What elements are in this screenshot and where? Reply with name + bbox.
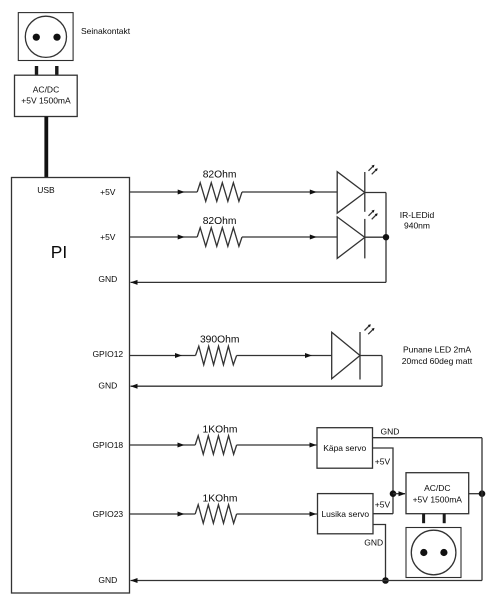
- red LED D3: [332, 332, 382, 380]
- svg-text:PI: PI: [51, 242, 67, 262]
- svg-text:Käpa servo: Käpa servo: [323, 443, 366, 453]
- wire GND return 2: [131, 385, 383, 387]
- svg-text:20mcd 60deg matt: 20mcd 60deg matt: [402, 356, 473, 366]
- wire GND return 3: [131, 580, 483, 582]
- wire GND return 1: [131, 281, 387, 283]
- wire +5V row 2: [130, 236, 198, 238]
- Lusika servo box: [318, 494, 374, 534]
- Käpa servo box: [317, 428, 373, 469]
- wire red LED down: [381, 356, 383, 387]
- wall socket Seinakontakt: [18, 13, 73, 61]
- arrow on +5V row 1 (right): [310, 190, 317, 195]
- svg-text:GPIO23: GPIO23: [92, 509, 123, 519]
- svg-text:82Ohm: 82Ohm: [203, 216, 237, 227]
- svg-text:+5V 1500mA: +5V 1500mA: [413, 494, 463, 504]
- resistor R1 82Ohm: [197, 183, 242, 202]
- plug prongs of AC/DC U1: [37, 66, 57, 76]
- svg-text:AC/DC: AC/DC: [33, 84, 59, 94]
- wire LED cathode bus down: [385, 193, 387, 283]
- wire GPIO23 row: [130, 513, 196, 515]
- Raspberry PI board: [12, 178, 130, 594]
- node +5V junction: [390, 490, 397, 497]
- wall socket 2: [406, 528, 461, 578]
- svg-text:Punane LED 2mA: Punane LED 2mA: [403, 345, 471, 355]
- plug prongs of AC/DC U2: [424, 514, 445, 524]
- AC/DC adapter U2: [406, 473, 469, 514]
- svg-text:1KOhm: 1KOhm: [203, 494, 238, 505]
- arrow into GND 3: [131, 578, 138, 583]
- arrow on +5V row 2 (right): [310, 235, 317, 240]
- resistor R3 390Ohm: [196, 346, 237, 365]
- wire AC/DC 2 GND out: [469, 493, 482, 495]
- svg-text:940nm: 940nm: [404, 220, 430, 230]
- resistor R2 82Ohm: [197, 228, 242, 247]
- USB power cable wire: [44, 117, 48, 179]
- svg-text:GND: GND: [364, 537, 383, 547]
- svg-text:+5V: +5V: [375, 457, 391, 467]
- light arrows D3: [365, 324, 375, 334]
- node GND junction bottom: [382, 577, 389, 584]
- svg-text:GND: GND: [98, 575, 117, 585]
- arrow into GND 1: [131, 280, 138, 285]
- arrow on GPIO12 row (right): [305, 353, 312, 358]
- node LED junction: [383, 234, 389, 240]
- svg-text:+5V: +5V: [100, 232, 116, 242]
- wire GPIO12 row: [130, 355, 196, 357]
- svg-text:+5V: +5V: [375, 500, 391, 510]
- svg-text:Seinakontakt: Seinakontakt: [81, 26, 131, 36]
- resistor R4 1KOhm: [195, 436, 236, 455]
- arrow on +5V row 2 (left): [178, 235, 185, 240]
- IR LED D1: [337, 172, 386, 214]
- resistor R5 1KOhm: [195, 505, 236, 524]
- svg-text:GPIO18: GPIO18: [92, 440, 123, 450]
- svg-text:GND: GND: [98, 381, 117, 391]
- svg-text:+5V: +5V: [100, 187, 116, 197]
- wire right GND bus: [481, 438, 483, 581]
- svg-text:Lusika servo: Lusika servo: [321, 509, 369, 519]
- svg-text:GND: GND: [381, 427, 400, 437]
- node GND junction right: [479, 490, 486, 497]
- wire to AC/DC 2: [393, 493, 405, 495]
- AC/DC adapter U1: [15, 75, 78, 116]
- svg-text:390Ohm: 390Ohm: [200, 335, 240, 346]
- arrow on GPIO12 row (left): [175, 353, 182, 358]
- arrow on GPIO18 row (right): [310, 443, 317, 448]
- IR LED D2: [337, 217, 386, 259]
- light arrows D1: [369, 165, 378, 175]
- light arrows D2: [369, 210, 378, 220]
- wire Lusika GND: [373, 525, 386, 581]
- svg-text:USB: USB: [37, 185, 55, 195]
- svg-text:GPIO12: GPIO12: [92, 349, 123, 359]
- wire +5V row 1: [130, 191, 198, 193]
- arrow on GPIO18 row (left): [178, 443, 185, 448]
- wire GPIO18 row: [130, 444, 196, 446]
- arrow on +5V row 1 (left): [178, 190, 185, 195]
- arrow into AC/DC 2: [399, 491, 406, 496]
- svg-text:+5V 1500mA: +5V 1500mA: [21, 96, 71, 106]
- arrow on GPIO23 row (left): [178, 512, 185, 517]
- wire Käpa GND: [373, 437, 483, 439]
- wire Käpa +5V: [373, 448, 394, 514]
- wire Lusika +5V: [373, 513, 393, 515]
- arrow on GPIO23 row (right): [310, 512, 317, 517]
- svg-text:82Ohm: 82Ohm: [203, 170, 237, 181]
- svg-text:1KOhm: 1KOhm: [203, 425, 238, 436]
- arrow into GND 2: [131, 384, 138, 389]
- svg-text:IR-LEDid: IR-LEDid: [400, 210, 435, 220]
- svg-text:GND: GND: [98, 274, 117, 284]
- svg-text:AC/DC: AC/DC: [424, 483, 450, 493]
